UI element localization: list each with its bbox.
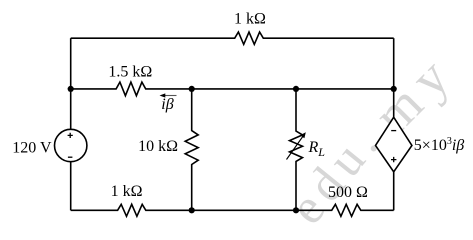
svg-text:iβ: iβ [161,96,173,113]
svg-text:1 kΩ: 1 kΩ [234,10,266,27]
svg-text:5×103iβ: 5×103iβ [414,136,464,154]
svg-text:1 kΩ: 1 kΩ [111,183,143,200]
svg-text:1.5 kΩ: 1.5 kΩ [108,63,152,80]
svg-text:120 V: 120 V [12,139,52,156]
svg-text:10 kΩ: 10 kΩ [138,138,178,155]
svg-text:500 Ω: 500 Ω [328,184,368,201]
